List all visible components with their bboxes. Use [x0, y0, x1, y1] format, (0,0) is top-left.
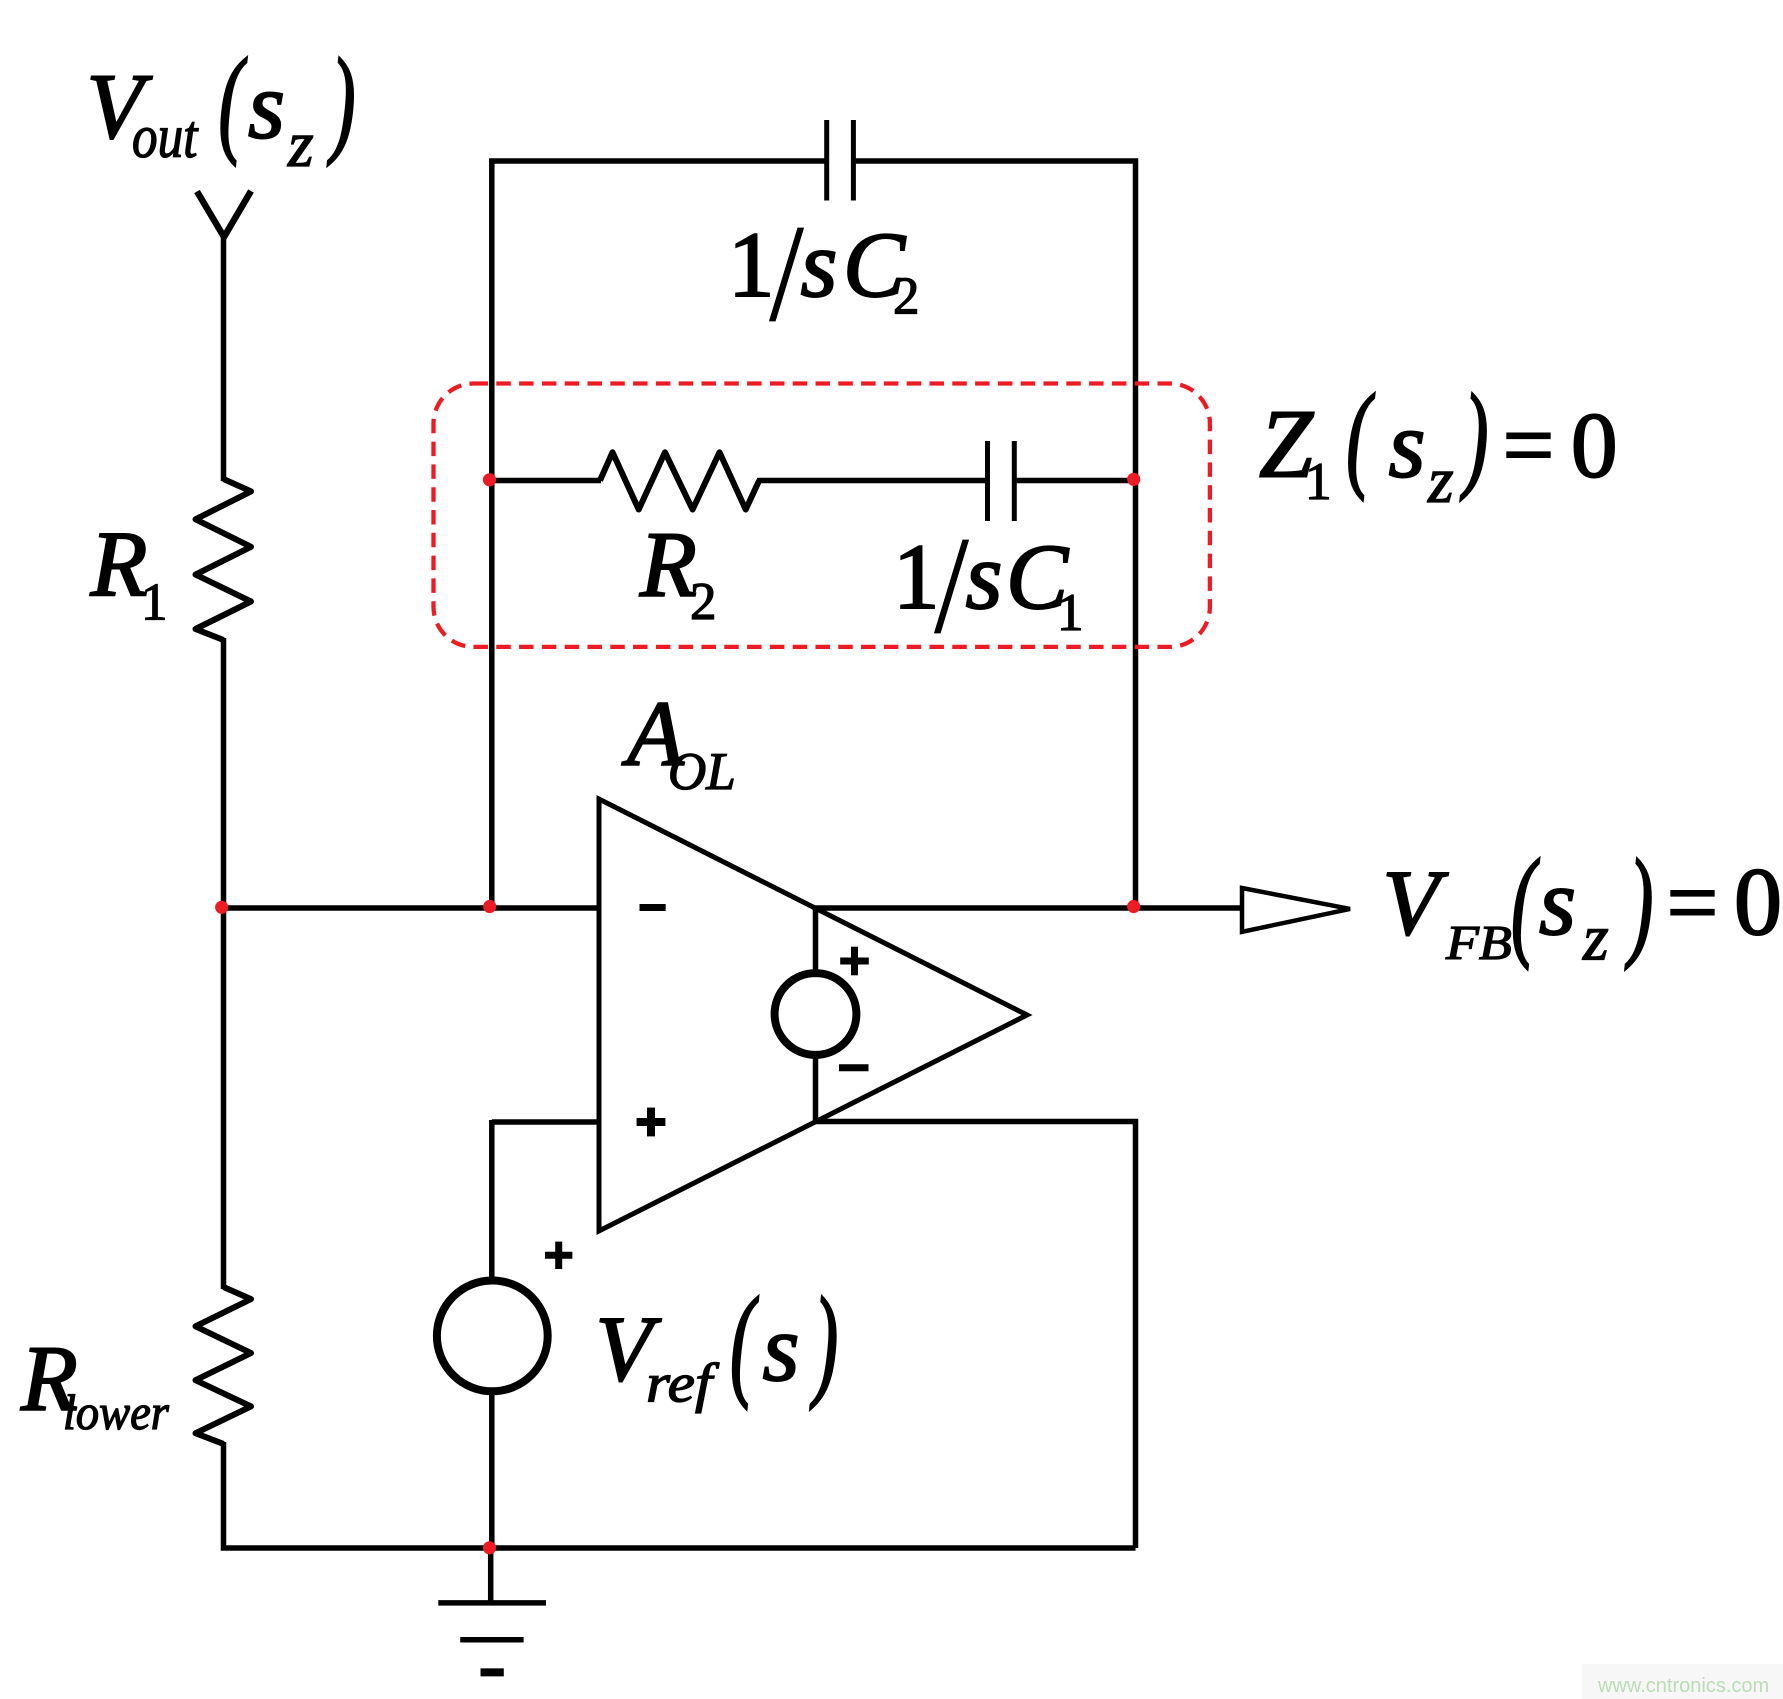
voltage source Vref: [437, 1281, 548, 1392]
svg-text:lower: lower: [63, 1385, 169, 1440]
resistor Rlower: [196, 1287, 252, 1444]
svg-text:0: 0: [1571, 394, 1618, 497]
output arrowhead: [1242, 888, 1350, 932]
svg-text:s: s: [763, 1295, 800, 1401]
wire: [224, 1442, 493, 1548]
wire: [856, 161, 1136, 910]
svg-text:): ): [327, 33, 356, 166]
wire inverting input: [221, 905, 599, 911]
wire noninverting input: [492, 1119, 599, 1125]
wire ground rail: [489, 1545, 1136, 1551]
wire: [489, 480, 495, 910]
svg-text:): ): [1460, 371, 1489, 502]
svg-text:1: 1: [728, 214, 775, 317]
svg-text:s: s: [1389, 391, 1426, 497]
wire: [492, 161, 825, 482]
op-amp minus sign: [640, 904, 666, 911]
svg-text:s: s: [248, 53, 285, 159]
wire: [489, 1120, 495, 1282]
wire: [221, 638, 227, 1289]
svg-text:1: 1: [893, 526, 940, 629]
wire: [813, 906, 819, 975]
junction node dot: [215, 901, 228, 914]
svg-text:s: s: [1539, 849, 1576, 955]
junction node dot: [1127, 473, 1140, 486]
wire: [757, 478, 985, 484]
svg-text:OL: OL: [668, 743, 736, 801]
svg-text:out: out: [132, 104, 199, 171]
svg-text:R: R: [90, 513, 148, 616]
wire: [221, 235, 227, 481]
wire: [814, 1122, 1136, 1549]
source E1 minus sign: [839, 1064, 869, 1071]
wire ground stub: [488, 1546, 494, 1603]
resistor R1: [196, 479, 252, 640]
wire: [813, 1053, 819, 1122]
svg-text:=: =: [1503, 394, 1554, 497]
svg-text:www.cntronics.com: www.cntronics.com: [1597, 1675, 1769, 1697]
svg-text:s: s: [966, 523, 1003, 629]
svg-text:z: z: [1582, 902, 1609, 975]
svg-text:): ): [1625, 833, 1653, 970]
svg-text:=: =: [1667, 851, 1718, 954]
svg-text:z: z: [1427, 444, 1454, 517]
svg-text:R: R: [639, 514, 697, 617]
resistor R2: [600, 452, 759, 509]
op-amp plus sign: [637, 1118, 666, 1126]
node Vout terminal arrow: [197, 191, 251, 237]
junction node dot: [1127, 900, 1140, 913]
wire: [492, 478, 601, 484]
svg-text:FB: FB: [1445, 916, 1512, 970]
svg-text:2: 2: [690, 573, 717, 631]
svg-text:(: (: [219, 33, 248, 166]
svg-text:2: 2: [893, 268, 920, 326]
svg-text:V: V: [1383, 852, 1449, 955]
svg-text:1: 1: [1305, 453, 1332, 511]
junction node dot: [483, 900, 496, 913]
dependent source E1: [775, 973, 857, 1055]
junction node dot: [483, 473, 496, 486]
svg-text:1: 1: [1057, 584, 1084, 642]
ground: [438, 1600, 546, 1606]
svg-text:(: (: [730, 1274, 759, 1411]
watermark: [1582, 1664, 1783, 1699]
wire: [1017, 478, 1136, 484]
svg-text:ref: ref: [646, 1353, 719, 1414]
Z1 impedance dashed box: [434, 384, 1210, 647]
wire output VFB: [814, 905, 1243, 911]
svg-text:s: s: [801, 211, 838, 317]
svg-text:1: 1: [141, 573, 168, 631]
wire: [489, 1390, 495, 1548]
svg-text:0: 0: [1734, 848, 1782, 955]
source Vref plus sign: [545, 1252, 572, 1259]
capacitor C2: [824, 120, 829, 201]
op-amp U1 triangle: [599, 799, 1027, 1231]
svg-text:z: z: [287, 108, 314, 181]
svg-text:): ): [810, 1274, 838, 1411]
source E1 plus sign: [840, 958, 869, 965]
capacitor C1: [985, 441, 990, 521]
junction node dot: [483, 1541, 496, 1554]
